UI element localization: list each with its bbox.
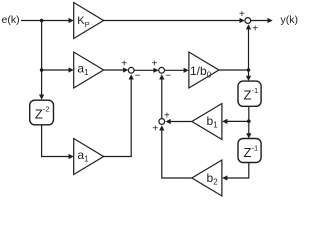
wire branch to a1 (upper) xyxy=(42,67,74,72)
wire J4 to b1 input xyxy=(222,119,249,124)
wire b1 to summer S3 xyxy=(166,119,192,124)
svg-text:−: − xyxy=(165,71,171,82)
wire S3 up to S2 xyxy=(159,74,164,118)
svg-text:+: + xyxy=(121,59,127,70)
node junction J4 between delays xyxy=(247,119,251,123)
wire a1 to summer S1 xyxy=(104,67,129,72)
amplifier a1 upper xyxy=(74,52,104,88)
delay Z^-1 box1 xyxy=(238,81,261,106)
amplifier 1/b0 xyxy=(189,52,219,88)
wire b2 to S3 bottom xyxy=(159,125,192,178)
delay Z^-2 box xyxy=(30,100,54,125)
summing junction S3 xyxy=(159,119,165,125)
amplifier b2 xyxy=(192,160,222,196)
summing junction S4 xyxy=(245,18,251,24)
wire Kp to summer S4 xyxy=(104,18,245,23)
svg-text:e(k): e(k) xyxy=(2,14,20,26)
wire box1 to box2 xyxy=(246,106,251,138)
wire branch down to Z^-2 xyxy=(39,21,44,100)
wire a1 lower to S1 bottom xyxy=(104,74,134,156)
wire 1/b0 to node J3 xyxy=(219,69,249,71)
svg-text:−: − xyxy=(135,71,141,82)
node junction at a1 branch xyxy=(40,68,44,72)
summing junction S2 xyxy=(159,67,165,73)
node junction at e(k) branch xyxy=(40,19,44,23)
summing junction S1 xyxy=(128,67,134,73)
svg-text:+: + xyxy=(152,124,158,135)
wire J3 up to S4 xyxy=(246,24,251,70)
amplifier a1 lower xyxy=(74,139,104,175)
node junction J3 after 1/b0 xyxy=(247,68,251,72)
wire Z^-2 to a1 lower xyxy=(42,125,74,159)
wire S2 to 1/b0 xyxy=(165,68,189,73)
wire S1 to summer S2 xyxy=(134,68,159,73)
svg-text:+: + xyxy=(164,110,170,121)
wire J3 down to Z^-1 box1 xyxy=(246,70,251,81)
wire e(k) to Kp input xyxy=(21,18,74,23)
delay Z^-1 box2 xyxy=(238,139,261,163)
svg-text:+: + xyxy=(239,9,245,20)
amplifier b1 xyxy=(192,104,222,140)
svg-text:y(k): y(k) xyxy=(281,14,299,26)
wire S4 output to y(k) xyxy=(251,18,273,23)
wire box2 to b2 input xyxy=(222,163,249,181)
amplifier KP xyxy=(74,3,104,39)
svg-text:+: + xyxy=(152,59,158,70)
svg-text:+: + xyxy=(252,24,258,35)
